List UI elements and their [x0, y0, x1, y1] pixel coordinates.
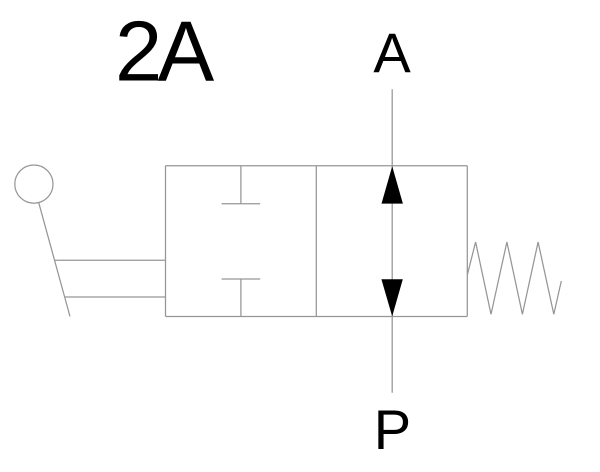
blocked port upper T crossbar [222, 203, 261, 205]
valve position divider [315, 166, 317, 317]
svg-text:P: P [374, 398, 411, 461]
valve body bottom edge [166, 316, 468, 318]
blocked port upper T stem [240, 166, 242, 204]
valve body right edge [466, 166, 468, 317]
lever knob circle [15, 165, 53, 203]
svg-text:2: 2 [115, 5, 162, 100]
lever link upper wire [55, 259, 166, 261]
svg-text:A: A [158, 5, 215, 100]
lever link lower wire [65, 296, 166, 298]
svg-text:A: A [373, 21, 411, 84]
flow arrow up [382, 166, 403, 203]
valve body top edge [166, 165, 468, 167]
wire port line A-P [391, 89, 393, 393]
valve body left edge [165, 166, 167, 317]
return spring [467, 242, 561, 314]
flow arrow down [381, 279, 402, 316]
blocked port lower T stem [240, 279, 242, 316]
blocked port lower T crossbar [222, 278, 261, 280]
lever arm [39, 203, 70, 317]
